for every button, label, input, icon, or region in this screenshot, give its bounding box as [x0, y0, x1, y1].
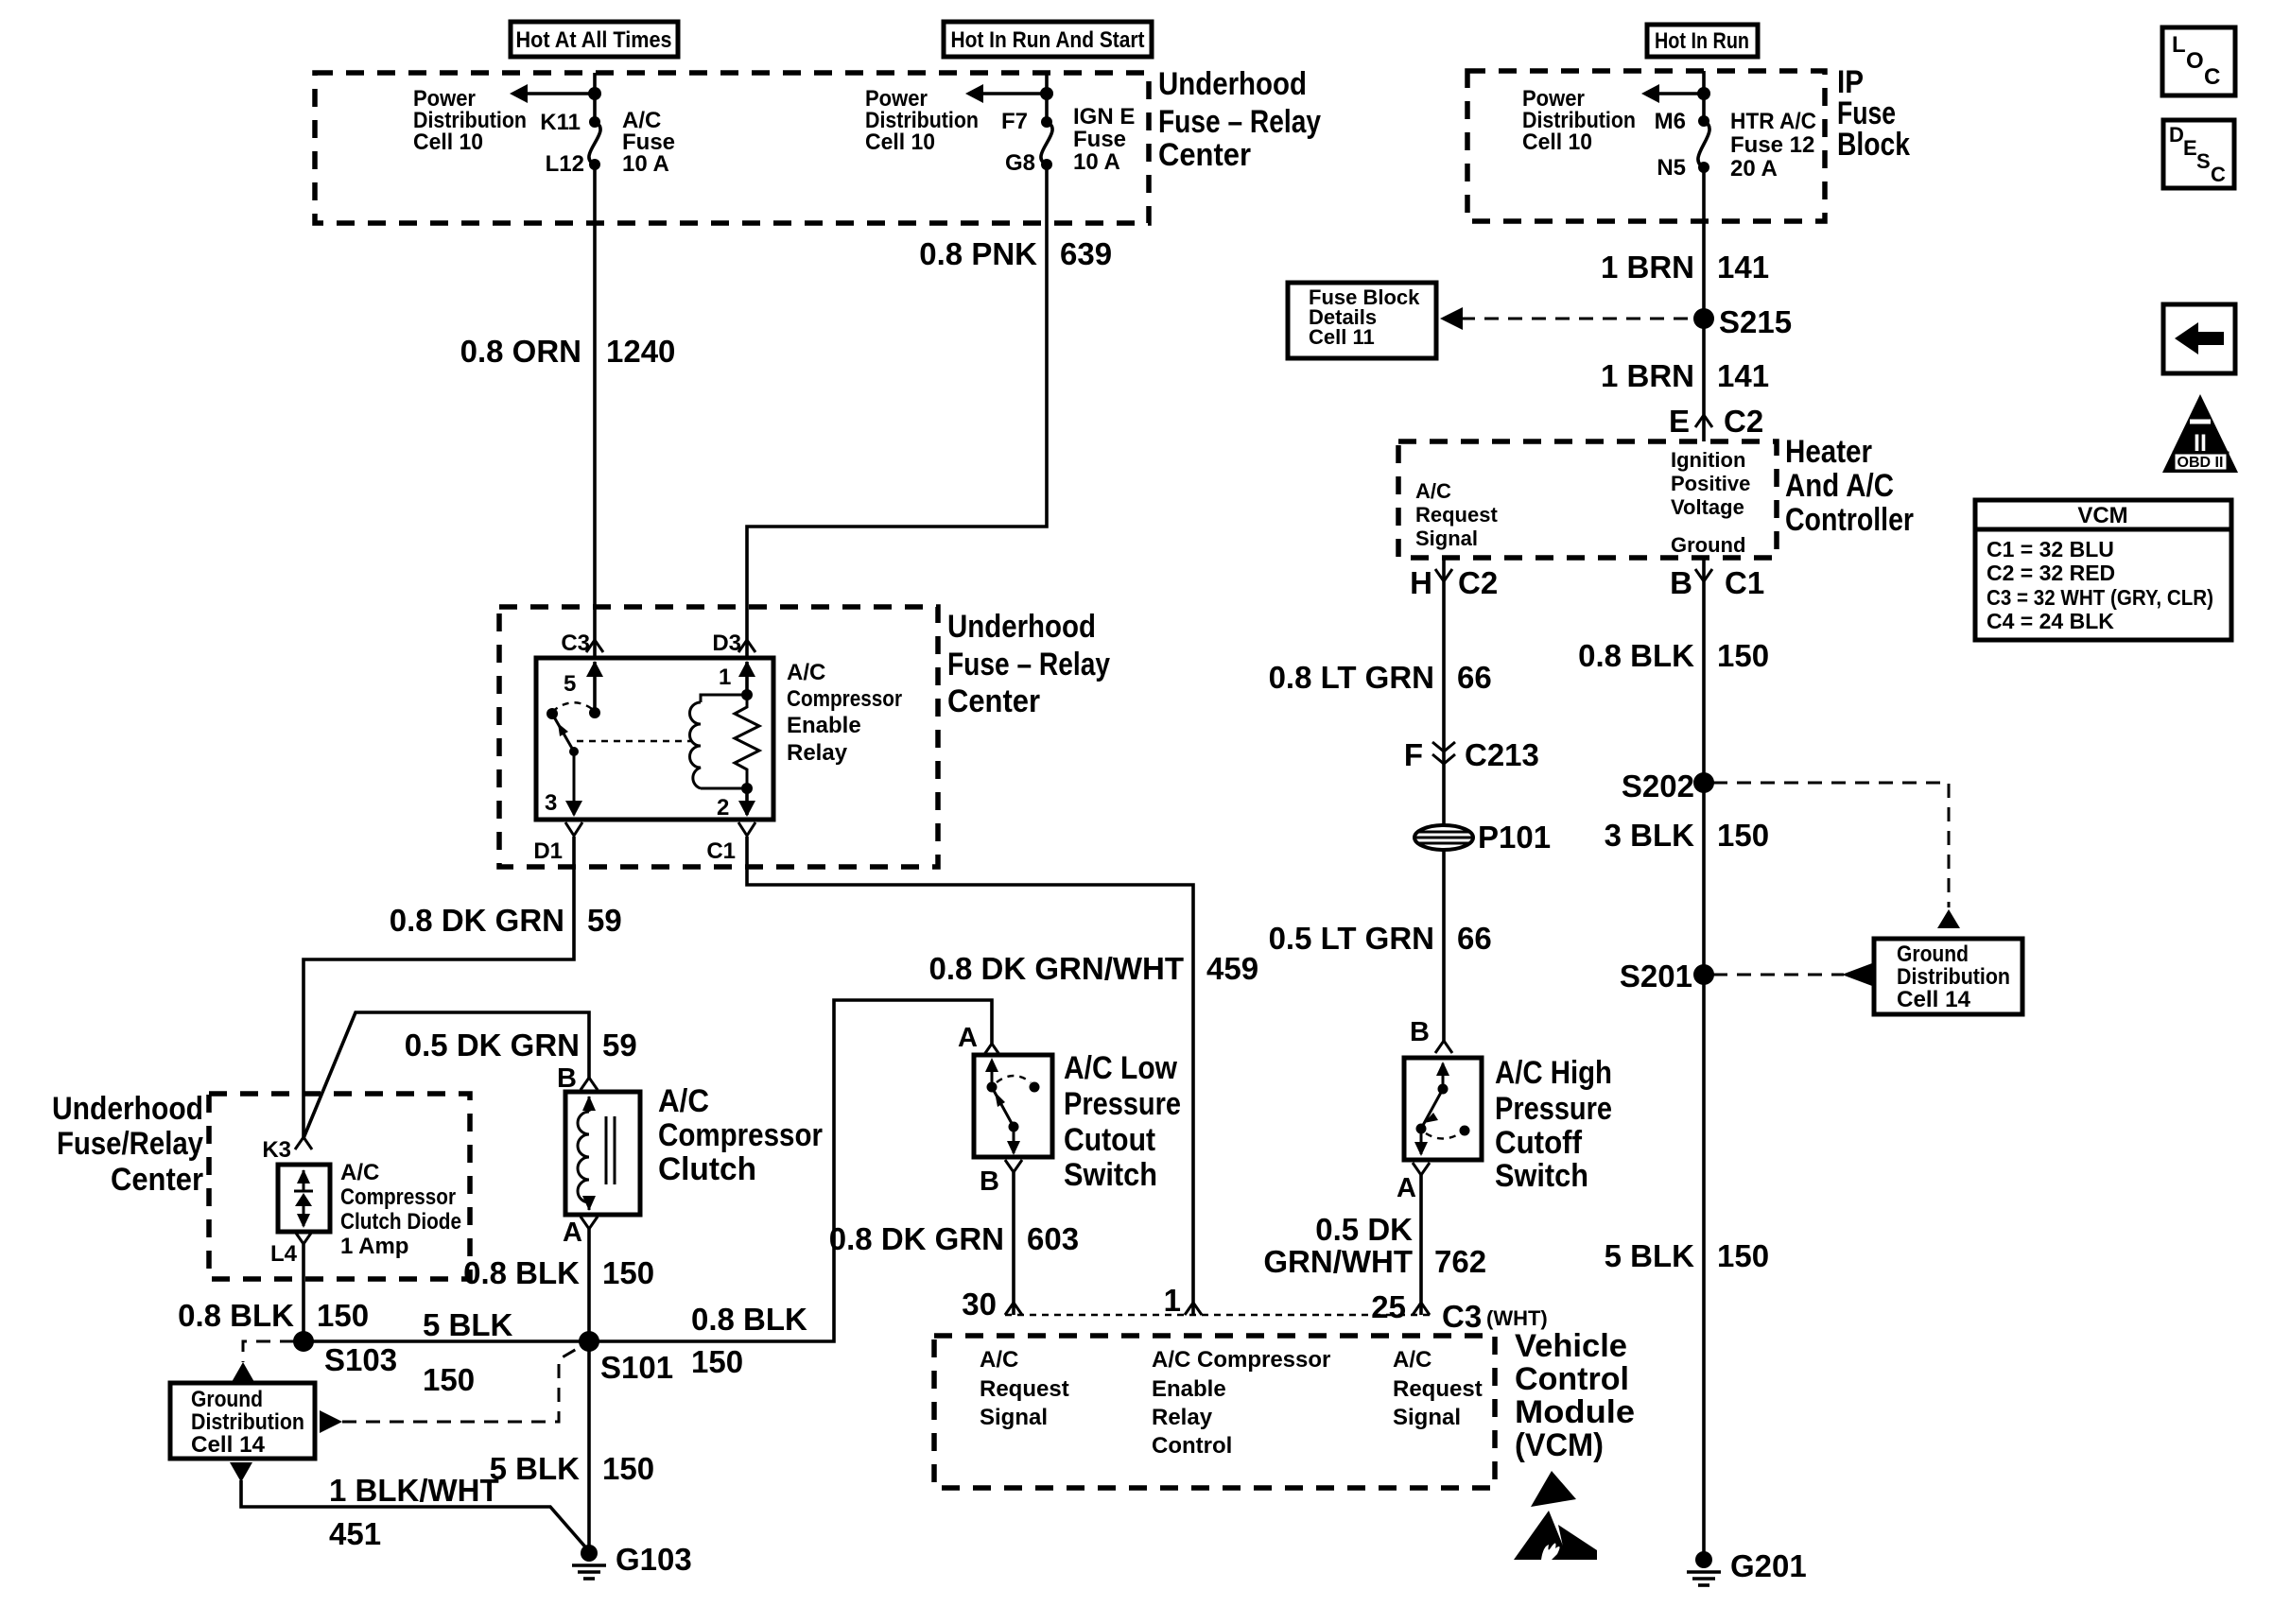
svg-text:0.8 DK GRN: 0.8 DK GRN	[390, 903, 564, 938]
svg-text:Cell 11: Cell 11	[1309, 325, 1375, 349]
connector B C1 out of heater controller	[1670, 565, 1764, 600]
label: Vehicle Control Module (VCM)	[1515, 1328, 1635, 1463]
svg-text:Ground: Ground	[1897, 942, 1969, 967]
label: HTR A/C Fuse 12 20 A	[1730, 109, 1816, 181]
svg-text:Fuse 12: Fuse 12	[1730, 132, 1814, 158]
svg-text:C2: C2	[1724, 404, 1763, 439]
svg-text:S101: S101	[600, 1350, 673, 1385]
fuse F3 HTR A/C Fuse 12 20A	[1698, 115, 1709, 173]
wire: HTR A/C fuse feed vertical	[1702, 71, 1706, 121]
svg-text:Voltage: Voltage	[1671, 495, 1744, 519]
svg-text:Underhood: Underhood	[1158, 66, 1307, 102]
svg-text:0.8 DK GRN: 0.8 DK GRN	[829, 1221, 1004, 1256]
wire: middle column from heater H down to high pressure switch B	[1442, 558, 1446, 1041]
connector A out of high pressure switch	[1397, 1163, 1430, 1203]
svg-text:A/C Low: A/C Low	[1064, 1050, 1177, 1086]
svg-text:A/C: A/C	[787, 660, 825, 685]
svg-text:Cutout: Cutout	[1064, 1122, 1155, 1158]
connector A out of clutch	[563, 1217, 598, 1248]
svg-text:Cell 10: Cell 10	[1522, 130, 1592, 155]
svg-text:Underhood: Underhood	[947, 609, 1096, 645]
icon DESC	[2163, 120, 2234, 188]
node: ground distribution ref S101 (dashed)	[320, 1349, 577, 1433]
svg-text:S: S	[2196, 149, 2211, 173]
relay K1 A/C Compressor Enable Relay box	[536, 658, 773, 820]
svg-text:Signal: Signal	[1393, 1405, 1461, 1430]
svg-text:A/C High: A/C High	[1495, 1055, 1612, 1091]
svg-text:Relay: Relay	[787, 740, 848, 766]
svg-text:OBD II: OBD II	[2178, 455, 2224, 471]
wire: 5 BLK 150 from S103 to S101	[304, 1307, 589, 1397]
svg-text:Center: Center	[111, 1162, 203, 1198]
svg-text:2: 2	[717, 795, 729, 821]
svg-text:150: 150	[1717, 818, 1769, 853]
svg-text:3 BLK: 3 BLK	[1605, 818, 1695, 853]
label: 1 BRN 141 (second)	[1601, 358, 1769, 393]
svg-text:3: 3	[545, 790, 557, 816]
underhood fuse-relay center dashed box (top)	[315, 73, 1149, 223]
label: Power Distribution Cell 10 (box 3)	[1522, 86, 1636, 155]
connector L4 out of diode	[270, 1232, 312, 1267]
connector C3 into relay	[561, 631, 603, 656]
svg-text:0.5 DK GRN: 0.5 DK GRN	[405, 1028, 580, 1063]
label: A/C High Pressure Cutoff Switch	[1495, 1055, 1612, 1194]
connector B into clutch	[557, 1063, 598, 1094]
svg-text:10 A: 10 A	[622, 151, 669, 177]
diode symbol	[294, 1169, 313, 1228]
dashed ref from S202 to ground distribution	[1713, 783, 1960, 928]
node S202	[1622, 769, 1714, 803]
node: relay coil bottom	[741, 783, 753, 794]
svg-text:VCM: VCM	[2077, 503, 2127, 528]
node: ground distribution ref S103 (dashed)	[232, 1341, 294, 1382]
wire: 0.8 BLK 150 from S101 to low pressure switch A	[589, 1000, 992, 1341]
connector pin 1 into VCM	[1164, 1283, 1202, 1318]
svg-text:150: 150	[317, 1298, 369, 1333]
svg-text:Control: Control	[1515, 1361, 1629, 1397]
wire: 0.8 BLK 150 from clutch A to S101	[463, 1229, 654, 1341]
svg-text:A/C: A/C	[980, 1347, 1018, 1373]
label: Heater And A/C Controller	[1785, 434, 1914, 538]
svg-text:A/C: A/C	[340, 1160, 379, 1185]
svg-text:762: 762	[1434, 1244, 1486, 1279]
svg-text:639: 639	[1060, 236, 1112, 271]
svg-text:66: 66	[1457, 921, 1492, 956]
svg-text:Ground: Ground	[191, 1387, 263, 1412]
svg-text:Fuse – Relay: Fuse – Relay	[1158, 104, 1321, 140]
svg-text:C: C	[2204, 64, 2220, 90]
label: Power Distribution Cell 10 (box 2)	[865, 86, 979, 155]
svg-text:Cell 10: Cell 10	[865, 130, 935, 155]
relay pin 1 stub	[719, 661, 755, 700]
clutch coil symbol	[578, 1096, 615, 1211]
VCM dashed box	[934, 1336, 1495, 1488]
svg-text:Enable: Enable	[787, 713, 861, 738]
wire: power distribution arrow 2	[965, 84, 1047, 103]
fuse block details cell 11 box	[1288, 283, 1436, 358]
svg-text:S201: S201	[1620, 959, 1692, 993]
label: A/C Compressor Clutch Diode 1 Amp	[340, 1160, 461, 1259]
node S101	[579, 1331, 673, 1385]
svg-text:Control: Control	[1152, 1433, 1232, 1459]
heater and A/C controller dashed box	[1398, 441, 1777, 558]
label: Ignition Positive Voltage Ground	[1671, 448, 1750, 557]
svg-text:0.5 LT GRN: 0.5 LT GRN	[1269, 921, 1434, 956]
label: Power Distribution Cell 10 (box 1)	[413, 86, 527, 155]
svg-text:A/C: A/C	[1415, 479, 1451, 503]
svg-text:Vehicle: Vehicle	[1515, 1328, 1627, 1364]
svg-text:C3: C3	[1442, 1299, 1482, 1334]
svg-text:0.8 DK GRN/WHT: 0.8 DK GRN/WHT	[928, 951, 1184, 986]
svg-text:150: 150	[691, 1344, 743, 1379]
svg-text:F: F	[1404, 737, 1423, 772]
svg-text:Hot In Run: Hot In Run	[1655, 28, 1749, 54]
svg-text:5 BLK: 5 BLK	[423, 1307, 513, 1342]
connector D1 out of relay	[533, 822, 582, 864]
svg-text:C1 = 32 BLU: C1 = 32 BLU	[1987, 537, 2114, 561]
icon LOC	[2162, 27, 2235, 95]
fuse F2 IGN E Fuse 10A	[1041, 116, 1052, 170]
svg-text:Clutch: Clutch	[658, 1151, 756, 1187]
svg-text:20 A: 20 A	[1730, 156, 1778, 181]
svg-text:150: 150	[1717, 638, 1769, 673]
svg-text:Ground: Ground	[1671, 533, 1745, 557]
svg-text:N5: N5	[1657, 155, 1686, 181]
ESD sensitivity symbol	[1514, 1471, 1597, 1560]
svg-text:0.8 PNK: 0.8 PNK	[919, 236, 1037, 271]
wire: 0.8 PNK 639	[747, 164, 1047, 658]
svg-text:K3: K3	[262, 1137, 291, 1163]
svg-text:C1: C1	[1725, 565, 1764, 600]
svg-text:Compressor: Compressor	[787, 686, 902, 712]
low pressure switch internals	[985, 1058, 1040, 1155]
relay actuation dashed link	[577, 740, 692, 742]
connector C1 out of relay	[706, 822, 755, 864]
label: Underhood Fuse - Relay Center (relay)	[947, 609, 1110, 719]
svg-text:S103: S103	[324, 1342, 397, 1377]
svg-text:M6: M6	[1655, 109, 1686, 134]
svg-text:451: 451	[329, 1516, 381, 1551]
svg-text:L: L	[2172, 32, 2186, 58]
svg-text:Positive: Positive	[1671, 472, 1750, 495]
svg-text:B: B	[557, 1063, 577, 1094]
svg-text:Cutoff: Cutoff	[1495, 1125, 1583, 1161]
dashed ref from S201 to ground distribution	[1713, 963, 1872, 986]
label: 3 BLK 150	[1605, 818, 1769, 853]
wire: 0.8 BLK 150 heater ground	[1702, 558, 1706, 1553]
svg-text:L12: L12	[546, 151, 584, 177]
label: 0.8 LT GRN 66	[1269, 660, 1492, 695]
svg-text:B: B	[980, 1166, 999, 1197]
svg-text:Pressure: Pressure	[1495, 1091, 1612, 1127]
svg-text:A/C: A/C	[658, 1083, 709, 1119]
svg-text:Request: Request	[1393, 1376, 1483, 1402]
wire: power distribution arrow 3	[1641, 84, 1704, 103]
svg-text:A/C Compressor: A/C Compressor	[1152, 1347, 1330, 1373]
svg-text:603: 603	[1027, 1221, 1079, 1256]
underhood fuse/relay center dashed box (diode)	[209, 1094, 470, 1279]
fuse F1 A/C Fuse 10A	[589, 116, 600, 170]
ground distribution cell 14 box (left)	[170, 1383, 315, 1459]
icon back arrow	[2163, 304, 2235, 373]
svg-text:B: B	[1670, 565, 1692, 600]
relay pin 2 stub	[717, 788, 755, 821]
connector A into low pressure switch	[958, 1023, 1000, 1056]
svg-text:59: 59	[602, 1028, 637, 1063]
node S103	[293, 1331, 397, 1377]
wire: 0.8 ORN 1240	[593, 164, 597, 658]
ground G103	[572, 1542, 692, 1579]
svg-text:IGN E: IGN E	[1073, 104, 1135, 130]
label: Underhood Fuse/Relay Center	[52, 1091, 203, 1198]
svg-text:E: E	[1669, 404, 1690, 439]
svg-text:Hot At All Times: Hot At All Times	[516, 27, 672, 53]
svg-text:0.8 BLK: 0.8 BLK	[463, 1255, 580, 1290]
svg-text:Request: Request	[980, 1376, 1069, 1402]
svg-text:B: B	[1410, 1017, 1430, 1047]
svg-text:A: A	[958, 1023, 978, 1053]
svg-text:C213: C213	[1465, 737, 1539, 772]
svg-text:(VCM): (VCM)	[1515, 1427, 1604, 1463]
svg-text:Distribution: Distribution	[191, 1409, 304, 1435]
svg-text:1 Amp: 1 Amp	[340, 1234, 408, 1259]
connector B out of low pressure switch	[980, 1160, 1022, 1197]
svg-text:59: 59	[587, 903, 622, 938]
svg-text:Ignition: Ignition	[1671, 448, 1745, 472]
svg-text:Fuse – Relay: Fuse – Relay	[947, 647, 1110, 682]
wire: 0.5 DK GRN/WHT 762 to VCM pin 25	[1263, 1175, 1486, 1315]
header box Hot At All Times	[511, 22, 678, 57]
svg-text:A: A	[1397, 1173, 1416, 1203]
connector K3 into diode	[262, 1137, 312, 1163]
label: A/C Fuse 10 A	[622, 108, 675, 177]
svg-text:O: O	[2186, 48, 2204, 74]
relay switch armature	[547, 702, 595, 756]
wire: 0.8 DK GRN/WHT 459 from C1	[747, 837, 1193, 1315]
label: A/C Compressor Enable Relay Control	[1152, 1347, 1330, 1459]
svg-text:10 A: 10 A	[1073, 149, 1120, 175]
svg-text:Fuse: Fuse	[1073, 127, 1126, 152]
svg-text:141: 141	[1717, 250, 1769, 285]
relay coil	[690, 695, 748, 788]
connector pin 30 into VCM	[962, 1287, 1022, 1322]
svg-text:Underhood: Underhood	[52, 1091, 203, 1127]
svg-text:Center: Center	[947, 683, 1040, 719]
svg-text:1: 1	[719, 665, 731, 690]
svg-text:GRN/WHT: GRN/WHT	[1263, 1244, 1413, 1279]
svg-text:0.5 DK: 0.5 DK	[1315, 1212, 1413, 1247]
svg-text:Distribution: Distribution	[1897, 964, 2010, 990]
node S201	[1620, 959, 1714, 993]
svg-text:150: 150	[1717, 1238, 1769, 1273]
wire: power distribution arrow 1	[510, 84, 595, 103]
svg-text:C1: C1	[706, 838, 736, 864]
svg-text:C2 = 32 RED: C2 = 32 RED	[1987, 561, 2115, 585]
node: junction at power distribution arrow 1	[588, 87, 601, 100]
label: A/C Compressor Enable Relay	[787, 660, 902, 766]
dashed ref from S215 to fuse block details	[1440, 307, 1694, 330]
wire: 0.5 DK GRN 59 branch to clutch	[304, 1012, 637, 1138]
svg-text:Fuse/Relay: Fuse/Relay	[57, 1126, 203, 1162]
svg-text:G201: G201	[1730, 1548, 1807, 1583]
connector D3 into relay	[712, 631, 755, 656]
svg-text:S202: S202	[1622, 769, 1694, 803]
svg-text:25: 25	[1371, 1289, 1406, 1324]
svg-text:Heater: Heater	[1785, 434, 1872, 470]
svg-text:A: A	[563, 1218, 582, 1248]
clutch M1 A/C compressor clutch box	[565, 1092, 640, 1215]
label: A/C Request Signal (VCM right)	[1393, 1347, 1483, 1430]
svg-text:L4: L4	[270, 1241, 298, 1267]
grommet P101	[1414, 820, 1551, 855]
svg-text:P101: P101	[1478, 820, 1551, 855]
svg-text:D: D	[2169, 123, 2184, 147]
svg-text:1240: 1240	[606, 334, 675, 369]
wire: 0.8 DK GRN 603 to VCM pin 30	[829, 1172, 1079, 1315]
wire: 1 BRN 141 from N5 to heater E	[1702, 167, 1706, 441]
svg-text:Hot In Run And Start: Hot In Run And Start	[951, 27, 1145, 53]
label: A/C Request Signal (VCM left)	[980, 1347, 1069, 1430]
svg-text:E: E	[2183, 136, 2197, 160]
svg-text:Relay: Relay	[1152, 1405, 1213, 1430]
svg-text:5 BLK: 5 BLK	[490, 1451, 581, 1486]
svg-text:And A/C: And A/C	[1785, 468, 1894, 504]
svg-text:C3 = 32 WHT (GRY, CLR): C3 = 32 WHT (GRY, CLR)	[1987, 585, 2213, 610]
svg-text:Compressor: Compressor	[658, 1117, 823, 1153]
svg-text:Module: Module	[1515, 1394, 1635, 1430]
svg-text:0.8 LT GRN: 0.8 LT GRN	[1269, 660, 1434, 695]
svg-text:Switch: Switch	[1495, 1158, 1588, 1194]
header box Hot In Run	[1647, 25, 1758, 57]
svg-text:HTR A/C: HTR A/C	[1730, 109, 1816, 134]
label: Underhood Fuse - Relay Center (top)	[1158, 66, 1321, 173]
IP fuse block dashed box	[1467, 71, 1825, 221]
svg-text:459: 459	[1206, 951, 1258, 986]
svg-text:G8: G8	[1005, 150, 1035, 176]
svg-text:Block: Block	[1837, 127, 1910, 163]
label: A/C Low Pressure Cutout Switch	[1064, 1050, 1181, 1193]
VCM legend box	[1975, 500, 2231, 640]
svg-text:(WHT): (WHT)	[1486, 1306, 1548, 1330]
relay pin 5 stub	[564, 661, 603, 718]
ground G201	[1687, 1548, 1807, 1585]
svg-text:5 BLK: 5 BLK	[1605, 1238, 1695, 1273]
svg-text:Switch: Switch	[1064, 1157, 1157, 1193]
relay pin 3 stub	[545, 752, 582, 817]
label: IP Fuse Block	[1837, 64, 1910, 163]
svg-text:0.8 BLK: 0.8 BLK	[1578, 638, 1694, 673]
svg-text:1 BRN: 1 BRN	[1601, 250, 1694, 285]
underhood fuse-relay center dashed box (relay)	[499, 607, 938, 867]
svg-text:A/C: A/C	[1393, 1347, 1431, 1373]
wire: 1 BLK/WHT 451 to G103	[230, 1462, 589, 1551]
svg-text:Cell 14: Cell 14	[191, 1432, 266, 1458]
svg-text:G103: G103	[616, 1542, 692, 1577]
svg-text:Pressure: Pressure	[1064, 1086, 1181, 1122]
svg-text:0.8 BLK: 0.8 BLK	[691, 1302, 807, 1337]
svg-text:K11: K11	[540, 110, 581, 135]
wire: 0.8 DK GRN 59 from D1	[304, 837, 574, 1138]
label: A/C Request Signal (heater box)	[1415, 479, 1498, 550]
svg-text:30: 30	[962, 1287, 997, 1322]
wire: 5 BLK 150 from S101 to G103	[490, 1341, 654, 1553]
connector pin 25 into VCM	[1371, 1289, 1547, 1334]
relay coil suppression resistor	[735, 695, 759, 788]
svg-text:C4 = 24 BLK: C4 = 24 BLK	[1987, 609, 2114, 633]
svg-text:C2: C2	[1458, 565, 1498, 600]
switch S2 A/C high pressure cutoff switch box	[1404, 1058, 1482, 1160]
high pressure switch internals	[1414, 1062, 1470, 1156]
connector H C2 out of heater controller	[1410, 565, 1498, 600]
svg-text:Cell 10: Cell 10	[413, 130, 483, 155]
node: junction at power distribution arrow 3	[1697, 87, 1710, 100]
svg-text:D3: D3	[712, 631, 741, 656]
svg-text:150: 150	[602, 1451, 654, 1486]
svg-text:C3: C3	[561, 631, 590, 656]
dashed connector line C3	[1005, 1314, 1430, 1316]
svg-text:0.8 BLK: 0.8 BLK	[178, 1298, 294, 1333]
svg-text:C: C	[2211, 163, 2226, 186]
svg-text:1 BLK/WHT: 1 BLK/WHT	[329, 1473, 499, 1508]
svg-text:H: H	[1410, 565, 1432, 600]
wire: 0.8 BLK 150 from L4 to S103	[178, 1244, 369, 1341]
svg-text:S215: S215	[1719, 304, 1792, 339]
svg-text:F7: F7	[1001, 109, 1028, 134]
connector E C2 into heater controller	[1669, 404, 1763, 439]
switch S1 A/C low pressure cutout switch box	[974, 1055, 1052, 1157]
svg-text:1 BRN: 1 BRN	[1601, 358, 1694, 393]
svg-text:0.8 ORN: 0.8 ORN	[460, 334, 581, 369]
label: 5 BLK 150 (right)	[1605, 1238, 1769, 1273]
svg-text:Cell 14: Cell 14	[1897, 987, 1971, 1012]
svg-text:66: 66	[1457, 660, 1492, 695]
diode CR1 A/C compressor clutch diode box	[278, 1165, 330, 1232]
ground distribution cell 14 box (right)	[1874, 939, 2022, 1014]
icon OBD II triangle	[2162, 394, 2238, 473]
connector B into high pressure switch	[1410, 1017, 1452, 1053]
svg-text:Center: Center	[1158, 137, 1251, 173]
node: junction at power distribution arrow 2	[1040, 87, 1053, 100]
svg-text:Controller: Controller	[1785, 502, 1914, 538]
svg-text:141: 141	[1717, 358, 1769, 393]
svg-text:Clutch Diode: Clutch Diode	[340, 1209, 461, 1235]
svg-text:Signal: Signal	[980, 1405, 1048, 1430]
svg-text:D1: D1	[533, 838, 563, 864]
wire: A/C fuse feed vertical	[593, 73, 597, 122]
svg-text:150: 150	[602, 1255, 654, 1290]
svg-text:1: 1	[1164, 1283, 1181, 1318]
svg-text:150: 150	[423, 1362, 475, 1397]
label: 0.8 BLK 150 (to switch)	[691, 1302, 807, 1379]
connector F C213 inline	[1404, 737, 1539, 772]
wire: IGN E fuse feed vertical	[1045, 73, 1049, 122]
label: 0.5 LT GRN 66	[1269, 921, 1492, 956]
label: IGN E Fuse 10 A	[1073, 104, 1135, 175]
svg-text:Request: Request	[1415, 503, 1498, 527]
svg-text:5: 5	[564, 671, 576, 697]
header box Hot In Run And Start	[944, 22, 1152, 57]
svg-text:Compressor: Compressor	[340, 1184, 456, 1210]
svg-text:Enable: Enable	[1152, 1376, 1226, 1402]
node S215	[1693, 304, 1792, 339]
label: A/C Compressor Clutch	[658, 1083, 823, 1187]
svg-text:Signal: Signal	[1415, 527, 1478, 550]
